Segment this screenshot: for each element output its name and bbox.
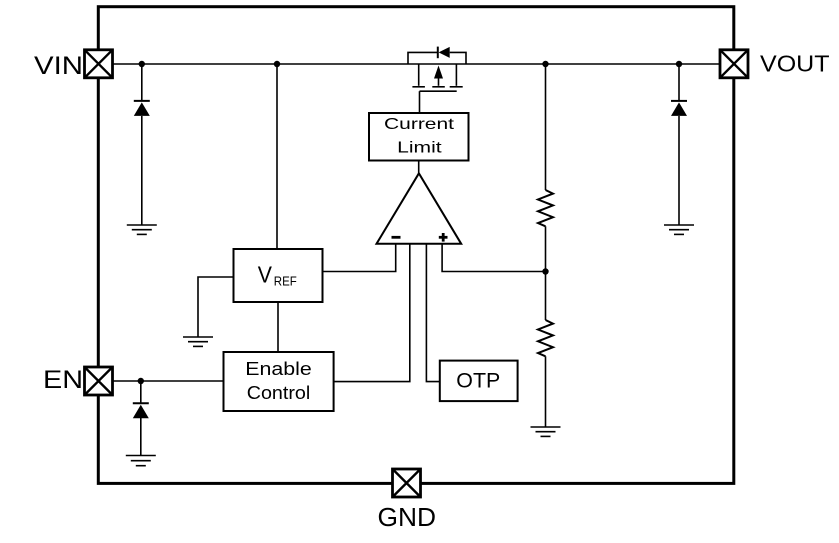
svg-text:VIN: VIN bbox=[34, 52, 83, 80]
svg-text:Current: Current bbox=[384, 116, 455, 133]
svg-text:V: V bbox=[258, 262, 272, 288]
svg-text:Enable: Enable bbox=[245, 358, 312, 379]
svg-text:Limit: Limit bbox=[397, 140, 442, 157]
svg-text:VOUT: VOUT bbox=[760, 51, 830, 77]
svg-text:Control: Control bbox=[247, 382, 311, 403]
svg-text:OTP: OTP bbox=[456, 370, 500, 393]
svg-text:EN: EN bbox=[43, 366, 83, 394]
svg-text:REF: REF bbox=[274, 274, 297, 289]
svg-text:GND: GND bbox=[378, 504, 437, 532]
